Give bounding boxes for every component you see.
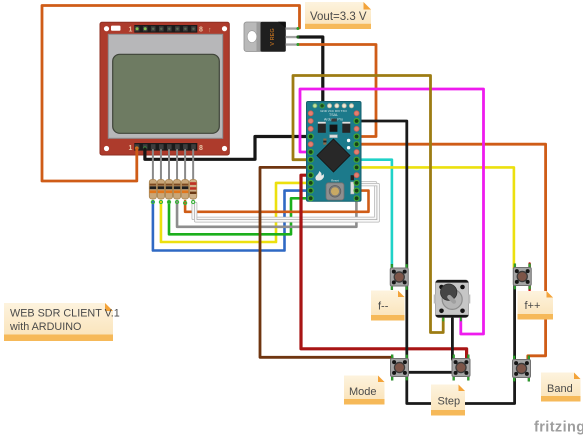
wire gray LCD pin6 to resistor R4 [176,150,178,181]
wire orange Arduino right pin5 to Band button [357,144,546,360]
svg-text:1: 1 [129,27,133,34]
wire magenta Arduino left pin6 to encoder pin C [300,89,484,334]
svg-text:GND VCC RXI TXO: GND VCC RXI TXO [320,109,347,113]
wire white R6 to Arduino right pin10 core [193,183,375,219]
wire white second parallel core [196,185,379,221]
svg-text:1: 1 [129,145,133,152]
shaft base [442,289,462,309]
svg-text:8: 8 [199,27,203,34]
wire black Arduino right pin2 to f-minus and Mode buttons [357,121,407,362]
mounting hole bottom-right [222,146,227,151]
wire black f-plus to Band button [513,284,516,360]
wire gray R4 to Arduino right pin12 [177,200,356,227]
part B [342,122,350,133]
mounting hole top-left [104,26,109,31]
wire orange regulator pin3 to Arduino right VCC [298,45,376,137]
svg-text:f++: f++ [525,300,541,312]
LCD board [100,22,229,155]
note Vout=3.3V [305,2,371,29]
wire white R6 to Arduino right pin10 outline [193,183,375,219]
top pin row [313,104,317,108]
wire gray LCD pin4 to resistor R2 [160,150,162,181]
wire orange R5 to Arduino right pin11 [185,191,368,212]
wire yellow R2 to Arduino pin10 [161,183,309,242]
wire olive Arduino left pin7 to encoder pin A [293,76,443,333]
pushbutton S3 Mode [391,355,409,381]
wire black Mode to Step button [407,371,454,374]
flame logo [315,171,324,181]
part A [318,122,326,133]
mounting hole top-right [222,26,227,31]
resistor R2 [157,180,164,204]
pushbutton S4 Step [452,355,470,381]
resistor R1 [149,180,156,204]
svg-text:Mode: Mode [349,386,377,398]
wire gray LCD pin8 to resistor R6 [192,150,194,181]
svg-text:8: 8 [199,145,203,152]
top pin green dots [136,27,139,30]
svg-text:Vout=3.3 V: Vout=3.3 V [310,11,367,23]
svg-text:↑: ↑ [208,27,212,34]
wire blue R1 to Arduino pin11 [153,191,309,251]
wire black encoder pin B to Step button [451,315,454,360]
LCD module LCD1 Nokia 5110 [100,22,229,155]
left pin column [308,111,313,201]
resistor R7 220ohm [190,180,197,204]
wires layer [42,6,546,404]
svg-text:fritzing: fritzing [534,420,583,435]
pushbutton S2 f-plus [513,264,531,290]
svg-text:V REG: V REG [270,28,276,45]
resistor R5 [182,180,189,205]
Arduino Pro Mini U1 [307,102,362,202]
note f-plus [518,291,554,320]
svg-text:with ARDUINO: with ARDUINO [9,321,81,333]
wire dark red Arduino left pin9 to Step button [301,175,467,359]
wire orange LCD pin1 to regulator pin1 (big loop) [42,6,300,182]
svg-text:Step: Step [438,396,461,408]
right pin column [354,111,359,201]
reset button [326,183,344,200]
note WEB SDR CLIENT [4,303,120,341]
bottom pin2 green pad [143,146,147,150]
wire yellow Arduino right pin8 to f-plus button [357,167,514,268]
wire gray LCD pin7 to resistor R5 [184,150,186,181]
wire gray LCD pin3 to resistor R1 [152,150,154,181]
note Mode [344,376,385,405]
pushbutton S5 Band [513,356,531,382]
note f-minus [371,291,405,321]
svg-text:WEB SDR CLIENT V.1: WEB SDR CLIENT V.1 [10,308,120,320]
part center IC [331,119,337,122]
green screen [113,54,220,133]
svg-text:Band: Band [547,383,573,395]
wire cyan Arduino right pin7 to f-minus button [357,160,392,269]
svg-text:Reset: Reset [331,178,339,182]
note Step [431,385,465,416]
wire white second parallel outline [196,185,379,221]
wire gray LCD pin5 to resistor R3 [168,150,170,181]
spare holes [347,139,350,142]
wire black regulator pin2 to Arduino top GND [298,37,323,105]
resistor R3 [165,180,172,204]
silk white mark [111,26,121,31]
note Band [541,373,581,402]
wire black Mode to Band ground chain [407,373,515,404]
voltage regulator U2 TO-220 [244,22,299,52]
wire green R3 to Arduino pin12 [169,198,309,234]
chip U3 ATmega [317,139,350,172]
wire brown Arduino left pin8 to Mode button [260,167,392,361]
wire red stub f-plus top right [528,264,530,269]
small parts right of reset [351,175,354,180]
encoder legs [442,318,444,322]
knob [441,284,457,300]
components layer [149,22,531,382]
wire red stub f-plus bottom right [528,285,530,291]
bottom pin header strip [134,143,197,151]
svg-text:f--: f-- [378,301,389,313]
pushbutton S1 f-minus [390,264,408,290]
resistor R4 [173,180,180,204]
bottom pin1 orange pad [135,146,139,150]
wire black LCD pin2 to Arduino GND [145,137,309,160]
top pin header strip [134,25,197,33]
rotary encoder ENC1 [434,280,471,321]
bezel [108,34,222,138]
mounting hole bottom-left [104,146,109,151]
